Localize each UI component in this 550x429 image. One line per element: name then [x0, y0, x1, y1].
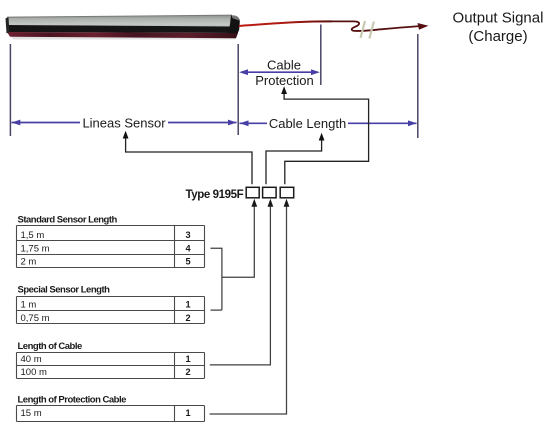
connector: protection-cable table to box 3: [210, 204, 287, 415]
sensor photo: red PVDF strip: [7, 32, 238, 38]
sensor photo: top face (light gray): [7, 15, 238, 26]
svg-text:Length of Protection Cable: Length of Protection Cable: [18, 394, 127, 405]
sensor photo: black front face: [7, 25, 238, 33]
connector: Cable Length label to box 2: [266, 137, 322, 185]
wire: bright red segment from sensor: [239, 21, 332, 26]
svg-text:Cable Length: Cable Length: [269, 116, 346, 131]
table 4: Length of Protection Cable: [17, 406, 205, 422]
sensor photo: left end cap: [6, 17, 10, 33]
order code box 3: [280, 187, 294, 198]
order code box 1: [246, 187, 259, 198]
extension line protection end (x=321): [320, 25, 322, 86]
svg-text:1: 1: [185, 354, 190, 364]
table 2: Special Sensor Length: [17, 297, 205, 324]
svg-text:Protection: Protection: [255, 73, 314, 88]
svg-text:1: 1: [185, 408, 190, 418]
svg-text:5: 5: [185, 257, 190, 267]
svg-text:2 m: 2 m: [21, 257, 37, 268]
svg-text:3: 3: [185, 230, 190, 240]
svg-text:4: 4: [185, 243, 191, 253]
svg-text:Cable: Cable: [267, 57, 301, 72]
svg-text:1: 1: [185, 300, 190, 310]
connector: Lineas Sensor label to box 1: [126, 135, 252, 185]
svg-text:Special Sensor Length: Special Sensor Length: [18, 285, 111, 296]
connector: sensor-length bracket to box 1: [211, 204, 255, 278]
svg-text:2: 2: [185, 367, 190, 377]
svg-text:15 m: 15 m: [21, 408, 42, 419]
sensor photo: dark top edge: [7, 15, 232, 17]
order code box 2: [263, 187, 277, 198]
svg-text:100 m: 100 m: [21, 367, 47, 378]
connector: Protection label to box 3: [284, 90, 369, 184]
dimension arrow: Cable Length: [240, 122, 268, 124]
svg-text:Lineas Sensor: Lineas Sensor: [82, 115, 166, 130]
wire break symbol (two slashes): [361, 21, 366, 38]
table 1: Standard Sensor Length: [17, 226, 205, 268]
svg-text:Output Signal: Output Signal: [453, 10, 544, 27]
svg-text:Length of Cable: Length of Cable: [18, 341, 82, 352]
svg-text:Type 9195F: Type 9195F: [186, 189, 244, 201]
svg-text:1,5 m: 1,5 m: [21, 230, 45, 241]
svg-text:40 m: 40 m: [21, 354, 42, 365]
table 3: Length of Cable: [17, 353, 205, 379]
extension line cable end (x=418): [417, 34, 419, 138]
sensor photo: right end cap: [229, 15, 240, 33]
dimension arrow: Cable Protection: [241, 71, 318, 73]
dimension arrow: Lineas Sensor: [168, 122, 237, 124]
wire: dark segment with squiggle loop: [332, 21, 421, 31]
svg-text:1,75 m: 1,75 m: [21, 243, 50, 254]
svg-text:(Charge): (Charge): [468, 28, 527, 45]
svg-text:1 m: 1 m: [21, 300, 37, 311]
svg-text:Standard Sensor Length: Standard Sensor Length: [18, 215, 118, 226]
svg-text:2: 2: [185, 313, 190, 323]
connector: cable-length table to box 2: [210, 204, 271, 365]
svg-text:0,75 m: 0,75 m: [21, 313, 50, 324]
extension line left (x=10): [9, 44, 11, 136]
sensor photo: shadow under bar: [12, 36, 236, 40]
wire: arrowhead: [418, 23, 429, 30]
extension line sensor end (x=238): [237, 44, 239, 135]
